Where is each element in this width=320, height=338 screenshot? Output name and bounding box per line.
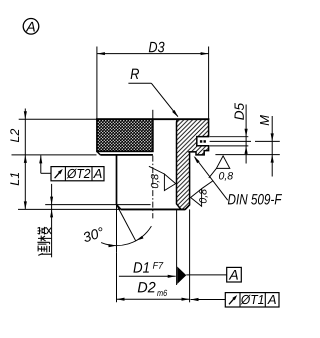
- wire: body bottom-right chamfer (section): [185, 205, 189, 210]
- wire: undercut notch top edge: [188, 151, 196, 153]
- radial hole in knob wall (D5/M): [200, 140, 202, 143]
- datum A box: [186, 274, 226, 276]
- datum feature triangle on D1 extension: [176, 209, 178, 285]
- circular runout symbol: [55, 171, 62, 179]
- centerline axis stub above part: [152, 110, 154, 119]
- wire: head underside edge (left half): [100, 154, 153, 156]
- wire: chamfer edge bottom-left of knurled head: [97, 151, 100, 155]
- surface finish 0,8 on outer diameter: [191, 181, 214, 207]
- radius callout R: [131, 69, 139, 79]
- 30 degree chamfer angle dimension: [116, 205, 118, 253]
- surface finish 0,8 at undercut face: [209, 156, 230, 178]
- wire: bottom chamfer start edge line: [45, 204, 150, 206]
- dimension M (thread): [215, 154, 279, 156]
- dimension D1 F7: [119, 275, 176, 277]
- surface finish 0,8 on bore wall: [149, 166, 176, 190]
- wire: body left edge (external): [116, 155, 118, 205]
- feature control frame: runout T2 datum A: [40, 155, 42, 173]
- dimension L2: [19, 118, 96, 120]
- wire: body bottom-left chamfer: [117, 205, 121, 210]
- view label circle A: [23, 19, 39, 35]
- sectioned wall of knob (hatched): [177, 119, 209, 209]
- feature control frame: runout T1 datum A: [191, 299, 226, 301]
- radial hole centerline: [210, 140, 251, 142]
- chamfer note text: dao (CJK drawn): [37, 242, 51, 255]
- dimension D2 m6: [116, 253, 118, 302]
- wire: top face line of knob: [96, 118, 209, 120]
- dimension D3: [96, 47, 98, 120]
- wire: bottom face of body: [121, 208, 185, 210]
- chamfer note text: leng (CJK drawn): [38, 227, 52, 241]
- undercut callout DIN 509-F: [195, 157, 228, 200]
- knurled band (external view, left half): [97, 119, 153, 151]
- dimension D5 (radial hole): [210, 136, 249, 138]
- dimension L1: [12, 154, 97, 156]
- circular runout symbol: [229, 297, 236, 305]
- centerline axis below part (dash-dot): [152, 156, 154, 219]
- chamfer note (dao leng) dimension leader: [51, 184, 53, 257]
